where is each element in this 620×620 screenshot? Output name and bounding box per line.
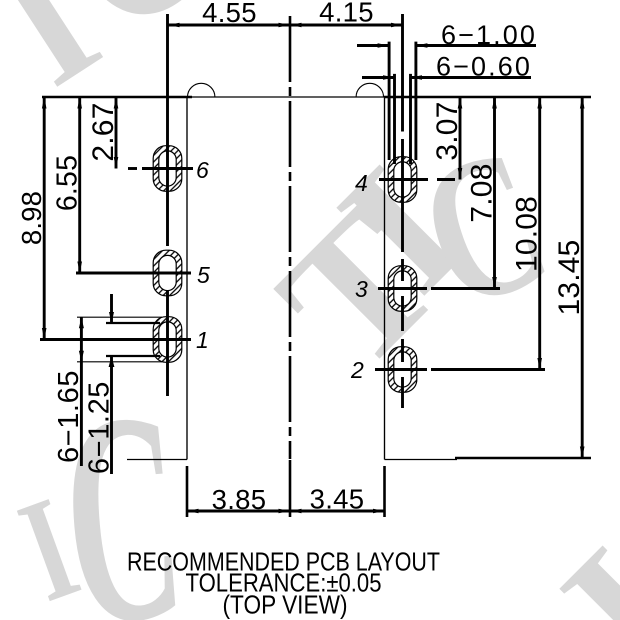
title line 2 [186,568,382,598]
dim 3.07 label [431,101,464,160]
svg-text:6−1.65: 6−1.65 [53,370,85,463]
svg-text:3: 3 [355,276,368,302]
pad 4 cross line [379,178,455,181]
watermark C top-left [18,0,261,73]
dim 6-1.25 line [109,294,115,474]
dim 6-1.65 label [53,370,85,463]
dim 3.45 label [310,484,365,515]
body outline left vertical [186,97,188,460]
svg-text:6−1.00: 6−1.00 [441,20,537,50]
title line 1 [127,547,440,577]
dim 10.08 label [511,196,544,272]
svg-text:6: 6 [196,157,209,183]
svg-text:5: 5 [197,262,210,288]
pad 2 [388,347,417,393]
pin label 5 [197,262,210,288]
svg-text:10.08: 10.08 [511,196,544,272]
svg-text:13.45: 13.45 [553,239,586,315]
dim 6-1.25 label [83,381,115,474]
pad 6 cross line [128,167,193,170]
edge notch left [188,83,215,97]
svg-text:2.67: 2.67 [87,102,120,161]
dim 7.08 label [466,163,499,222]
dim 6-0.60 line [362,75,531,80]
svg-text:3.07: 3.07 [431,101,464,160]
pad 6 [153,146,182,192]
dim 2.67 label [87,102,120,161]
dim 8.98 line [42,97,47,340]
dim 10.08 line [537,97,542,370]
pad 1 inner extension lines [106,323,160,356]
body bottom edge right [385,459,458,461]
center line (chain) [289,16,292,517]
dim tick right [383,466,386,517]
watermark T center [240,172,476,408]
dim 6-0.60 label [436,52,532,82]
svg-text:4.15: 4.15 [319,0,374,28]
pin label 3 [355,276,368,302]
edge notch right [356,83,383,97]
dim 3.45 line [290,509,385,514]
pad 3 cross line [378,287,500,290]
dim 6-1.00 label [441,20,537,50]
body outline right vertical [384,97,386,460]
pin label 2 [350,357,364,383]
dim 3.85 line [187,509,290,514]
watermark I bottom-right [524,513,620,620]
watermark C bottom-left [52,348,190,620]
dim tick left [186,466,189,517]
top edge line [42,96,591,99]
pin label 6 [196,157,209,183]
dim 6-1.00 line [357,43,536,48]
pad 5 cross line [76,272,191,275]
dim 3.85 label [212,484,267,515]
svg-text:1: 1 [196,327,209,353]
pad 2 cross line [375,368,545,371]
svg-text:6−0.60: 6−0.60 [436,52,532,82]
watermark C center [394,105,569,352]
pad column right centerline upper [401,14,404,252]
svg-text:3.85: 3.85 [212,484,267,515]
dim 13.45 line [580,97,585,458]
pad 5 [153,250,182,296]
dim 4.55 line [168,23,290,28]
svg-text:2: 2 [350,357,364,383]
pad column left centerline [166,14,169,396]
svg-text:4: 4 [355,170,368,196]
dim 8.98 label [16,191,47,245]
dim 6.55 label [52,155,84,211]
svg-text:8.98: 8.98 [16,191,47,245]
pad 1 cross line [40,338,191,341]
bottom reference line [455,457,591,460]
watermark I bottom-left [2,466,93,620]
svg-text:6−1.25: 6−1.25 [83,381,115,474]
dim 3.07 line [458,97,463,180]
svg-text:7.08: 7.08 [466,163,499,222]
pin 4 slot outer lines [389,42,416,160]
dim 4.15 line [290,23,403,28]
svg-text:(TOP VIEW): (TOP VIEW) [223,590,348,620]
body bottom edge left [127,459,187,461]
dim 2.67 line [114,97,119,169]
pin label 1 [196,327,209,353]
dim 6.55 line [77,97,82,273]
pad 2 centerline [401,339,404,408]
pad 3 centerline [401,259,404,331]
dim 6-1.65 line [79,317,84,466]
watermark I top-left [0,0,125,121]
dim 4.55 label [202,0,257,28]
pin label 4 [355,170,368,196]
dim 13.45 label [553,239,586,315]
pin 4 slot inner lines [395,74,411,164]
pad 1 [153,317,182,363]
svg-text:3.45: 3.45 [310,484,365,515]
title line 3 [223,590,348,620]
pad 1 outer extension lines [77,317,162,362]
dim 4.15 label [319,0,374,28]
pad 4 [388,157,417,203]
pad 3 [388,266,417,312]
svg-text:4.55: 4.55 [202,0,257,28]
watermark I center [301,132,499,330]
dim 7.08 line [492,97,497,289]
svg-text:6.55: 6.55 [52,155,84,211]
